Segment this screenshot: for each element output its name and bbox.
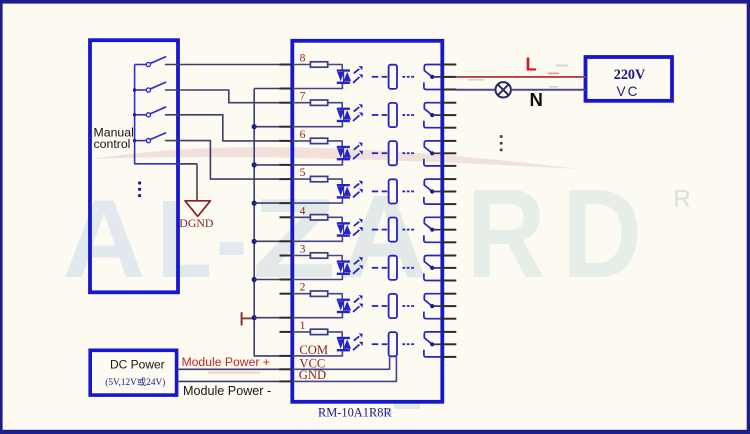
relay contact K7 xyxy=(424,103,443,128)
svg-text:DC Power: DC Power xyxy=(110,358,165,372)
relay contact K6 xyxy=(424,141,443,166)
wire LED U7 cathode return xyxy=(293,122,343,127)
opto-coil dashed link left xyxy=(372,229,387,231)
wire IN8 to resistor xyxy=(293,64,311,66)
wire IN7 to resistor xyxy=(293,102,311,104)
coil-contact dashed link right xyxy=(402,152,414,154)
label N xyxy=(530,89,543,110)
wire IN2 to resistor xyxy=(293,293,311,295)
pin number 6 xyxy=(300,128,306,141)
optocoupler U1 LED xyxy=(337,337,351,352)
wire N lamp right to 220V box xyxy=(511,89,586,91)
svg-text:8: 8 xyxy=(300,52,306,65)
coil-contact dashed link right xyxy=(402,267,414,269)
junction bus-ch5 return xyxy=(252,201,257,206)
wire resistor to LED U2 xyxy=(328,294,343,299)
label VCC xyxy=(299,356,325,370)
relay contact K1 xyxy=(424,332,443,357)
switch S4 xyxy=(135,133,167,143)
wire S4 to IN5 xyxy=(165,141,280,180)
pin COM4 stub xyxy=(441,229,456,231)
wire IN1 to resistor xyxy=(293,331,311,333)
wire LED U1 cathode return xyxy=(293,351,343,356)
label DC Power xyxy=(110,358,165,372)
opto U2 light arrows xyxy=(353,295,363,312)
pin COM3 stub xyxy=(441,267,456,269)
svg-text:L: L xyxy=(157,178,212,301)
relay coil K6 xyxy=(389,141,397,165)
coil-contact dashed link right xyxy=(402,229,414,231)
svg-text:VC: VC xyxy=(617,84,640,99)
pin IN6 stub xyxy=(280,140,294,142)
relay coil K5 xyxy=(389,179,397,203)
pin IN3 stub xyxy=(280,255,294,257)
pin NO1 stub xyxy=(441,356,456,358)
pin NC5 stub xyxy=(441,178,456,180)
opto U8 light arrows xyxy=(353,66,363,83)
label Module Power + xyxy=(182,355,270,369)
pin NC1 stub xyxy=(441,331,456,333)
pin COM8 stub xyxy=(441,76,456,78)
more-outputs ellipsis dots xyxy=(500,135,503,151)
more-switches ellipsis dots xyxy=(138,181,141,197)
red port marker at ch2 return xyxy=(242,312,252,325)
svg-text:2: 2 xyxy=(300,281,306,294)
optocoupler U3 LED xyxy=(337,260,351,275)
wire resistor to LED U4 xyxy=(328,217,343,222)
pin number 4 xyxy=(300,204,306,217)
junction bus-ch6 return xyxy=(252,162,257,167)
pin number 2 xyxy=(300,281,306,294)
wire IN5 to resistor xyxy=(293,178,311,180)
relay coil K1 xyxy=(389,332,397,356)
opto U4 light arrows xyxy=(353,219,363,236)
pin IN2 return stub xyxy=(280,317,294,319)
optocoupler U5 LED xyxy=(337,184,351,199)
pin NO3 stub xyxy=(441,280,456,282)
pin IN8 return stub xyxy=(280,88,294,90)
pin COM5 stub xyxy=(441,191,456,193)
wire bus to IN2 return xyxy=(254,317,280,319)
switch S3 xyxy=(135,107,167,117)
svg-text:GND: GND xyxy=(299,368,326,382)
svg-text:COM: COM xyxy=(299,343,328,357)
wire IN3 to resistor xyxy=(293,255,311,257)
pin IN1 stub xyxy=(280,331,294,333)
pin GND stub xyxy=(280,380,294,382)
wire VCC from DC power xyxy=(177,368,280,370)
switch common bus xyxy=(135,65,197,164)
optocoupler U6 LED xyxy=(337,146,351,161)
label (5V,12V or 24V) xyxy=(105,376,165,388)
pin IN5 return stub xyxy=(280,202,294,204)
pin number 3 xyxy=(300,243,306,256)
relay contact K3 xyxy=(424,256,443,281)
coil-contact dashed link right xyxy=(402,114,414,116)
pin IN6 return stub xyxy=(280,164,294,166)
relay coil K7 xyxy=(389,103,397,127)
wire bus to IN3 return xyxy=(254,279,280,281)
wire VCC to coil K1 xyxy=(293,356,390,369)
pin NC4 stub xyxy=(441,216,456,218)
pin IN5 stub xyxy=(280,178,294,180)
opto U5 light arrows xyxy=(353,180,363,197)
svg-text:DGND: DGND xyxy=(179,216,214,230)
pin NC2 stub xyxy=(441,293,456,295)
pin IN7 return stub xyxy=(280,126,294,128)
svg-text:1: 1 xyxy=(300,319,306,332)
wire bus to IN7 return xyxy=(254,126,280,128)
pin COM2 stub xyxy=(441,305,456,307)
svg-text:4: 4 xyxy=(300,204,306,217)
label DGND xyxy=(179,216,214,230)
opto-coil dashed link left xyxy=(372,343,387,345)
resistor R2 xyxy=(310,291,327,296)
pin number 8 xyxy=(300,52,306,65)
wire LED U8 cathode return xyxy=(293,84,343,89)
resistor R6 xyxy=(310,138,327,143)
wire LED U2 cathode return xyxy=(293,313,343,318)
junction bus-ch7 return xyxy=(252,124,257,129)
pin VCC stub xyxy=(280,368,294,370)
pin IN3 return stub xyxy=(280,279,294,281)
relay contact K5 xyxy=(424,179,443,204)
wire to DGND xyxy=(177,164,197,201)
pin IN4 stub xyxy=(280,216,294,218)
pin NO7 stub xyxy=(441,127,456,129)
pin NC7 stub xyxy=(441,102,456,104)
resistor R7 xyxy=(310,100,327,105)
relay coil K4 xyxy=(389,218,397,242)
wire LED U5 cathode return xyxy=(293,198,343,203)
svg-text:7: 7 xyxy=(300,90,306,103)
pin COM1 stub xyxy=(441,343,456,345)
coil-contact dashed link right xyxy=(402,305,414,307)
svg-text:control: control xyxy=(94,137,131,151)
coil-contact dashed link right xyxy=(402,343,414,345)
wire LED U4 cathode return xyxy=(293,237,343,242)
pin IN7 stub xyxy=(280,102,294,104)
junction bus-ch2 return xyxy=(252,315,257,320)
220V AC source box xyxy=(586,57,673,101)
opto-coil dashed link left xyxy=(372,76,387,78)
svg-text:Module Power -: Module Power - xyxy=(183,384,271,398)
resistor R4 xyxy=(310,215,327,220)
opto U6 light arrows xyxy=(353,142,363,159)
svg-text:D: D xyxy=(562,163,642,304)
label GND xyxy=(299,368,326,382)
svg-text:-: - xyxy=(216,178,247,301)
pin COM6 stub xyxy=(441,152,456,154)
wire S1 to IN8 xyxy=(165,64,280,66)
opto-coil dashed link left xyxy=(372,190,387,192)
wire resistor to LED U8 xyxy=(328,65,343,70)
wire LED U3 cathode return xyxy=(293,275,343,280)
svg-text:Module Power +: Module Power + xyxy=(182,355,270,369)
wire bus to IN5 return xyxy=(254,202,280,204)
svg-text:3: 3 xyxy=(300,243,306,256)
wire bus to IN8 return xyxy=(254,88,280,90)
svg-text:L: L xyxy=(526,54,537,74)
pin NO4 stub xyxy=(441,241,456,243)
wire bus to IN4 return xyxy=(254,240,280,242)
opto-coil dashed link left xyxy=(372,152,387,154)
switch S2 xyxy=(135,82,167,92)
coil-contact dashed link right xyxy=(402,190,414,192)
switch S1 xyxy=(135,57,167,67)
svg-text:5: 5 xyxy=(300,166,306,179)
relay contact K2 xyxy=(424,294,443,319)
opto U3 light arrows xyxy=(353,257,363,274)
pin NC8 stub xyxy=(441,64,456,66)
relay module box RM-10A1R8R8 xyxy=(292,41,442,402)
relay coil K8 xyxy=(389,65,397,89)
svg-text:220V: 220V xyxy=(614,67,646,83)
wire resistor to LED U5 xyxy=(328,179,343,184)
pin number 1 xyxy=(300,319,306,332)
svg-text:N: N xyxy=(530,89,543,110)
relay coil K2 xyxy=(389,294,397,318)
wire GND from DC power xyxy=(177,380,280,382)
pin number 5 xyxy=(300,166,306,179)
opto U1 light arrows xyxy=(353,333,363,350)
pin COM7 stub xyxy=(441,114,456,116)
resistor R5 xyxy=(310,176,327,181)
wire resistor to LED U6 xyxy=(328,141,343,146)
label 220V xyxy=(614,67,646,83)
label Manual control xyxy=(94,125,134,151)
pin NC3 stub xyxy=(441,255,456,257)
optocoupler U4 LED xyxy=(337,222,351,237)
wire S3 to IN6 xyxy=(165,115,280,141)
junction bus-ch3 return xyxy=(252,277,257,282)
pin NO2 stub xyxy=(441,318,456,320)
wire IN4 to resistor xyxy=(293,216,311,218)
pin NO6 stub xyxy=(441,165,456,167)
lamp EL1 xyxy=(496,82,511,97)
wire resistor to LED U7 xyxy=(328,103,343,108)
optocoupler U2 LED xyxy=(337,299,351,314)
pin NO8 stub xyxy=(441,89,456,91)
opto-coil dashed link left xyxy=(372,267,387,269)
resistor R3 xyxy=(310,253,327,258)
pin IN1 return stub xyxy=(280,355,294,357)
label VC xyxy=(617,84,640,99)
pin IN2 stub xyxy=(280,293,294,295)
resistor R1 xyxy=(310,329,327,334)
wire resistor to LED U1 xyxy=(328,332,343,337)
pin NC6 stub xyxy=(441,140,456,142)
relay contact K4 xyxy=(424,217,443,242)
svg-text:R: R xyxy=(467,163,546,304)
svg-text:6: 6 xyxy=(300,128,306,141)
relay coil K3 xyxy=(389,256,397,280)
label L xyxy=(526,54,537,74)
svg-text:8: 8 xyxy=(386,405,392,419)
opto-coil dashed link left xyxy=(372,114,387,116)
wire GND to coil K1 xyxy=(293,357,397,382)
wire IN6 to resistor xyxy=(293,140,311,142)
resistor R8 xyxy=(310,62,327,67)
ground DGND symbol xyxy=(185,201,210,217)
optocoupler U8 LED xyxy=(337,69,351,84)
pin IN8 stub xyxy=(280,64,294,66)
opto-coil dashed link left xyxy=(372,305,387,307)
svg-text:A: A xyxy=(63,178,146,301)
wire N lamp left xyxy=(456,89,496,91)
label RM-10A1R8R8 xyxy=(318,405,392,420)
coil-contact dashed link right xyxy=(402,76,414,78)
junction switch bus xyxy=(133,113,136,116)
relay contact K8 xyxy=(424,65,443,90)
opto U7 light arrows xyxy=(353,104,363,121)
pin IN4 return stub xyxy=(280,240,294,242)
svg-text:(5V,12V或24V): (5V,12V或24V) xyxy=(105,376,165,388)
pin number 7 xyxy=(300,90,306,103)
wire L (live) to 220V box xyxy=(456,76,586,78)
wire bus to IN6 return xyxy=(254,164,280,166)
junction switch bus xyxy=(133,139,136,142)
junction switch bus xyxy=(133,88,136,91)
junction bus-ch4 return xyxy=(252,239,257,244)
input common bus wire xyxy=(254,89,280,356)
svg-text:R: R xyxy=(673,186,690,213)
wire S2 to IN7 xyxy=(165,90,280,103)
optocoupler U7 LED xyxy=(337,108,351,123)
label COM xyxy=(299,343,328,357)
DC power box xyxy=(90,350,176,395)
svg-text:RM-10A1R8R: RM-10A1R8R xyxy=(318,406,392,420)
manual control box xyxy=(90,40,178,292)
label Module Power - xyxy=(183,384,271,398)
pin NO5 stub xyxy=(441,203,456,205)
wire LED U6 cathode return xyxy=(293,160,343,165)
wire resistor to LED U3 xyxy=(328,256,343,261)
